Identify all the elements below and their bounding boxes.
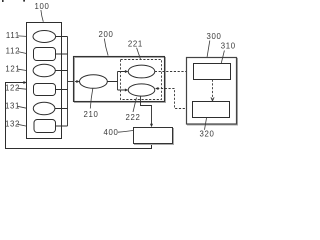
svg-text:100: 100 xyxy=(34,2,49,11)
svg-text:222: 222 xyxy=(125,113,140,122)
svg-text:210: 210 xyxy=(83,110,98,119)
svg-text:200: 200 xyxy=(98,30,113,39)
svg-text:300: 300 xyxy=(206,32,221,41)
svg-text:221: 221 xyxy=(128,40,143,49)
svg-text:310: 310 xyxy=(221,42,236,51)
svg-text:400: 400 xyxy=(103,128,118,137)
svg-text:112: 112 xyxy=(6,47,21,56)
svg-text:111: 111 xyxy=(6,31,20,40)
svg-text:320: 320 xyxy=(199,130,214,139)
